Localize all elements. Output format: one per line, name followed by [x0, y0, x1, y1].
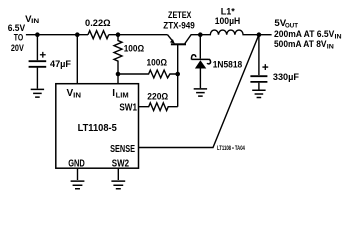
svg-text:SW1: SW1 [119, 102, 137, 113]
svg-text:LT1108 • TA04: LT1108 • TA04 [217, 146, 245, 152]
inductor L1 100uH [200, 6, 259, 34]
IC U1 LT1108-5 [56, 84, 139, 170]
resistor R3 100ohm horizontal [118, 57, 178, 78]
ground under C1 [31, 89, 44, 97]
svg-text:20V: 20V [11, 43, 24, 54]
svg-text:1N5818: 1N5818 [213, 59, 243, 69]
node D collector junction [198, 32, 203, 37]
svg-text:330µF: 330µF [273, 72, 299, 83]
svg-text:100µH: 100µH [215, 16, 241, 26]
node VIN label [8, 14, 40, 54]
wire SW2 pin [117, 168, 119, 180]
node C 100ohm junction [116, 32, 121, 37]
svg-text:IN: IN [335, 33, 342, 40]
svg-text:220Ω: 220Ω [147, 91, 168, 102]
svg-text:SENSE: SENSE [110, 144, 135, 155]
wire ILIM pin drop [117, 74, 119, 84]
node B VIN pin junction [75, 32, 80, 37]
ground under GND pin [71, 181, 85, 189]
svg-text:L1*: L1* [221, 6, 235, 16]
svg-text:100Ω: 100Ω [147, 57, 168, 68]
svg-text:100Ω: 100Ω [124, 43, 145, 54]
svg-text:SW2: SW2 [112, 158, 130, 169]
ground under C2 [252, 90, 265, 97]
wire rail to transistor emitter [109, 34, 168, 36]
transistor Q1 ZTX-949 [163, 10, 200, 44]
wire SENSE to output node [139, 35, 259, 148]
svg-text:GND: GND [68, 158, 85, 169]
svg-text:IN: IN [327, 43, 334, 50]
svg-text:LIM: LIM [116, 93, 129, 100]
node E output junction [257, 32, 262, 37]
wire output stub [259, 34, 272, 36]
capacitor C2 330uF [250, 35, 299, 90]
resistor R2 100ohm vertical [114, 35, 144, 74]
svg-text:ZETEX: ZETEX [168, 10, 192, 20]
svg-text:LT1108-5: LT1108-5 [78, 123, 117, 134]
wire input rail left segment [26, 34, 88, 36]
node output labels [274, 18, 342, 50]
svg-text:ZTX-949: ZTX-949 [163, 20, 195, 30]
node A input cap junction [35, 32, 40, 37]
ground under SW2 pin [111, 181, 125, 189]
wire GND pin [77, 168, 79, 180]
wire base lead vertical [177, 44, 179, 106]
ground under D1 [194, 89, 207, 96]
resistor R1 0.22ohm [88, 31, 109, 39]
capacitor C1 47uF [29, 35, 72, 89]
svg-text:IN: IN [31, 18, 39, 25]
svg-text:47µF: 47µF [50, 59, 71, 70]
svg-text:IN: IN [73, 93, 81, 100]
node F ILIM junction [116, 72, 121, 77]
resistor R4 220ohm [139, 91, 178, 110]
wire VIN pin drop [76, 35, 78, 84]
node G base junction [175, 72, 180, 77]
svg-text:500mA AT 8V: 500mA AT 8V [274, 39, 327, 50]
diode D1 1N5818 [191, 35, 242, 88]
svg-text:0.22Ω: 0.22Ω [85, 18, 111, 29]
